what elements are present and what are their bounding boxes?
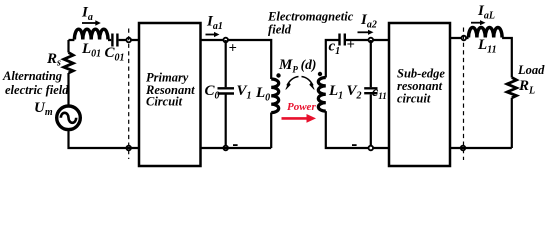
- svg-text:circuit: circuit: [397, 92, 431, 106]
- svg-text:C01: C01: [105, 45, 125, 64]
- resistor RL: [507, 78, 516, 98]
- wire: [67, 131, 138, 149]
- polarity dot L0: [276, 73, 280, 77]
- coupling arrow left: [286, 77, 299, 90]
- minus sign V1: [233, 144, 238, 146]
- node bottom-left port: [126, 146, 131, 151]
- current arrow Ia2: [358, 12, 377, 35]
- wire: [451, 37, 469, 39]
- svg-text:MP(d): MP(d): [278, 57, 316, 75]
- label Primary Resonant Circuit: [145, 71, 195, 109]
- label Sub-edge resonant circuit: [397, 67, 445, 106]
- wire: [201, 113, 271, 149]
- coupling arrow right: [302, 77, 315, 90]
- node c11 bottom: [369, 146, 374, 151]
- svg-text:electric field: electric field: [5, 83, 69, 97]
- svg-text:Alternating: Alternating: [2, 69, 62, 83]
- svg-text:Electromagnetic: Electromagnetic: [267, 9, 354, 23]
- inductor L01: [74, 29, 108, 39]
- inductor L0: [271, 79, 279, 113]
- svg-text:+: +: [229, 40, 237, 56]
- wire: [201, 40, 271, 79]
- svg-text:+: +: [347, 37, 355, 53]
- svg-text:Circuit: Circuit: [146, 95, 183, 109]
- svg-text:c11: c11: [372, 85, 387, 101]
- svg-text:RL: RL: [518, 78, 535, 97]
- inductor L11: [469, 27, 503, 37]
- node right port bottom: [461, 146, 466, 151]
- capacitor C0 branch: [225, 40, 227, 148]
- svg-text:IaL: IaL: [477, 3, 495, 22]
- wire: [451, 98, 512, 148]
- current arrow Ia: [81, 5, 101, 26]
- box Primary Resonant Circuit: [139, 23, 201, 166]
- wire: [69, 39, 139, 41]
- dashed port line right: [463, 28, 465, 161]
- node top-left port: [126, 38, 131, 43]
- capacitor C01: [112, 34, 117, 47]
- svg-text:field: field: [268, 23, 292, 37]
- polarity dot L1: [318, 72, 322, 76]
- current arrow IaL: [471, 3, 495, 25]
- minus sign V2: [352, 144, 357, 146]
- node A: [223, 38, 228, 43]
- AC source Um: [57, 106, 81, 130]
- node right port top: [462, 36, 467, 41]
- power arrow red: [282, 114, 317, 123]
- svg-text:Rs: Rs: [46, 51, 61, 69]
- label Electromagnetic field: [267, 9, 354, 36]
- svg-text:L0: L0: [255, 85, 270, 104]
- dashed port line left: [128, 29, 130, 160]
- svg-text:L1: L1: [328, 83, 343, 102]
- current arrow Ia1: [206, 14, 223, 38]
- svg-text:Ia2: Ia2: [360, 12, 377, 31]
- wire: [67, 40, 69, 53]
- wire: [67, 73, 69, 106]
- svg-text:V2: V2: [347, 83, 362, 102]
- svg-text:C0: C0: [205, 83, 220, 102]
- node c11 top: [369, 38, 374, 43]
- box Sub-edge resonant circuit: [389, 23, 450, 166]
- svg-text:Ia: Ia: [81, 5, 93, 24]
- svg-text:Power: Power: [287, 101, 316, 113]
- svg-text:L01: L01: [81, 41, 101, 60]
- wire: [326, 40, 388, 148]
- wire: [502, 38, 512, 78]
- svg-text:Um: Um: [34, 100, 53, 118]
- capacitor c1: [340, 34, 345, 46]
- inductor L1: [318, 78, 326, 112]
- svg-text:Load: Load: [517, 63, 545, 77]
- node bottom C0: [223, 146, 228, 151]
- label Alternating electric field: [2, 69, 69, 97]
- resistor Rs: [64, 53, 73, 74]
- capacitor c11 branch: [370, 40, 372, 148]
- svg-text:V1: V1: [237, 83, 252, 102]
- svg-text:Ia1: Ia1: [206, 14, 223, 33]
- svg-text:L11: L11: [477, 37, 497, 56]
